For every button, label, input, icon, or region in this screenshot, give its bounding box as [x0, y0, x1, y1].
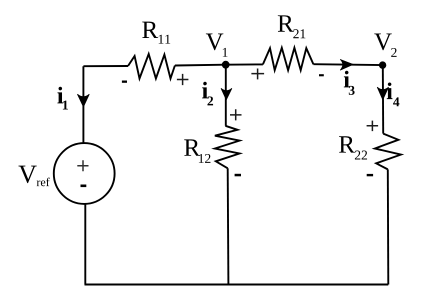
- wire left vertical from corner to source top: [82, 66, 84, 143]
- polarity minus below R12: [235, 174, 241, 177]
- polarity minus right of R21: [319, 74, 324, 76]
- arrowhead i4 current arrow on right wire: [377, 87, 388, 100]
- polarity plus above R22: [367, 121, 379, 132]
- label current i3: [344, 71, 355, 95]
- node V1 junction dot: [222, 61, 230, 69]
- wire top-left horizontal from corner to R11: [83, 65, 128, 67]
- label R21: [278, 15, 306, 38]
- label current i2: [202, 82, 213, 106]
- resistor R21 zigzag: [263, 48, 314, 70]
- label R12: [184, 139, 210, 162]
- label current i4: [387, 82, 400, 106]
- wire R11 to node V1: [175, 64, 226, 67]
- label R11: [142, 22, 170, 44]
- label V_ref: [18, 166, 49, 187]
- resistor R12 zigzag: [215, 126, 240, 169]
- polarity plus above R12: [230, 109, 242, 120]
- label node V1: [206, 34, 228, 57]
- wire R21 to node V2: [313, 63, 382, 66]
- arrowhead i1 current arrow on left wire: [77, 94, 89, 107]
- polarity minus below R22: [367, 174, 373, 176]
- label node V2: [374, 34, 396, 57]
- wire node V2 down to R22: [382, 65, 384, 134]
- polarity plus inside source: [77, 160, 88, 171]
- resistor R22 zigzag: [375, 134, 401, 170]
- node V2 junction dot: [379, 61, 386, 68]
- arrowhead i2 current arrow on middle wire: [221, 88, 232, 100]
- polarity minus inside source: [81, 185, 87, 188]
- label current i1: [57, 87, 67, 110]
- wire bottom rail: [85, 284, 389, 286]
- arrowhead i3 current arrow on top wire: [340, 59, 353, 70]
- wire source bottom to bottom rail: [84, 204, 86, 285]
- wire node V1 down to R12: [225, 65, 227, 126]
- label R22: [339, 136, 367, 159]
- wire R12 bottom to bottom rail: [227, 168, 230, 284]
- wire node V1 to R21: [226, 63, 263, 65]
- polarity minus left of R11: [122, 81, 127, 83]
- voltage source V_ref circle: [54, 143, 115, 204]
- resistor R11 zigzag: [128, 54, 175, 79]
- polarity plus left of R21: [251, 69, 264, 80]
- wire R22 bottom to bottom rail: [387, 169, 390, 284]
- polarity plus right of R11: [177, 74, 189, 85]
